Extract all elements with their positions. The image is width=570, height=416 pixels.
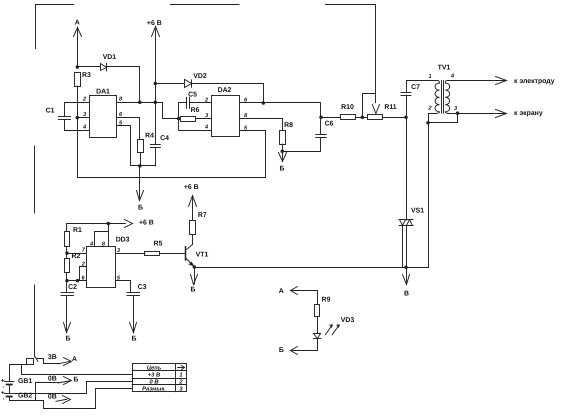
svg-text:R10: R10 — [341, 104, 354, 111]
wire A-node to VD1 — [77, 66, 100, 68]
junction dot TV1 bottom node — [426, 121, 430, 125]
+6V net arrow above R7 — [189, 196, 197, 221]
transistor VT1 base bar — [185, 247, 187, 260]
wire R11 to C7 line — [382, 117, 406, 119]
net A arrow to R9 — [291, 287, 318, 305]
diode VD2 — [185, 80, 192, 88]
wire DD3 pin6 — [67, 280, 87, 282]
ground rail wire of oscillator — [78, 131, 266, 178]
resistor R8 — [280, 131, 286, 145]
border bracket top-left — [36, 5, 74, 49]
wire riser to 0V-B arrow — [36, 383, 59, 401]
triac VS1 — [399, 220, 413, 268]
ground arrow below VT1 (net B) — [191, 267, 198, 285]
op-amp DA1 — [90, 96, 117, 138]
wire DD3 pin2 jog — [80, 267, 87, 281]
transformer TV1 core — [442, 81, 444, 114]
svg-text:4: 4 — [450, 74, 455, 80]
svg-text:R5: R5 — [154, 241, 163, 248]
svg-text:2: 2 — [82, 97, 87, 103]
net A arrow 3V — [58, 358, 72, 366]
wire +3V to table row1 — [22, 365, 133, 375]
junction dot +6V to VD2 — [154, 82, 158, 86]
svg-text:Цепь: Цепь — [147, 366, 162, 372]
junction dot C6 top node — [319, 116, 323, 120]
ground arrow below R4 (net B) — [137, 166, 144, 201]
svg-text:R8: R8 — [284, 122, 293, 129]
svg-text:GB2: GB2 — [18, 392, 32, 399]
resistor R7 — [190, 221, 196, 235]
svg-text:R3: R3 — [82, 72, 91, 79]
junction dot R10/R11 — [361, 116, 365, 120]
resistor R1 — [65, 232, 70, 247]
node A net label top — [74, 27, 82, 67]
wire C7 top to transformer pin1 — [407, 81, 437, 93]
emitter arrowhead — [189, 262, 195, 267]
wire bottom rail to table row3 — [44, 389, 133, 409]
wire +6V corner down to R1 — [66, 224, 68, 232]
wire DD3 pin8 stub — [108, 224, 110, 247]
wire +6V to VD2 — [155, 83, 184, 85]
svg-text:Б: Б — [191, 287, 196, 294]
resistor R10 — [341, 115, 356, 120]
svg-text:DA1: DA1 — [96, 89, 110, 96]
resistor R3 — [75, 73, 81, 87]
svg-text:R2: R2 — [72, 253, 81, 260]
wire GB2 bottom rail — [10, 397, 44, 401]
svg-text:1: 1 — [179, 373, 182, 379]
wire VD1 to drop — [107, 67, 140, 103]
svg-text:А: А — [279, 288, 284, 295]
svg-text:Б: Б — [66, 335, 71, 342]
wire DD3 pin3 to R5 — [116, 253, 145, 255]
wire R4 bottom — [140, 153, 142, 166]
wire R6 to DA2 pin3 — [196, 118, 212, 120]
junction dot R1/R2 pin7 — [65, 251, 69, 255]
svg-text:TV1: TV1 — [438, 64, 451, 71]
junction dot DD3 supply — [107, 222, 111, 226]
svg-text:+: + — [1, 391, 5, 397]
junction dot C5/R6 node — [177, 117, 181, 121]
svg-text:C6: C6 — [325, 120, 334, 127]
wire DD3 pin5 to C3 — [116, 281, 131, 293]
potentiometer R11 — [368, 115, 383, 120]
svg-text:3В: 3В — [48, 354, 57, 361]
svg-text:7: 7 — [82, 248, 86, 254]
wire DA2 pin8 to R8 — [240, 119, 283, 131]
border segment left lower into switch — [34, 285, 36, 357]
svg-text:GB1: GB1 — [18, 378, 32, 385]
wire DA2 pin5 — [240, 130, 265, 132]
connector table X1 — [132, 364, 186, 392]
net B arrow 0V — [58, 377, 72, 385]
svg-text:А: А — [72, 356, 77, 363]
svg-text:Б: Б — [132, 335, 137, 342]
svg-text:0В: 0В — [48, 394, 57, 401]
border segment top-middle — [171, 4, 240, 6]
switch SA1 lever — [27, 357, 39, 365]
resistor R6 — [181, 117, 196, 122]
junction dot DA1 pin3 — [76, 116, 80, 120]
wire DD3 pin7 — [67, 253, 87, 255]
transformer TV1 secondary winding — [445, 80, 449, 113]
wire R1 to R2 — [66, 247, 68, 259]
wire DA1 pin3 — [77, 117, 89, 119]
svg-text:R7: R7 — [198, 212, 207, 219]
svg-text:C2: C2 — [68, 284, 77, 291]
svg-text:VT1: VT1 — [196, 251, 209, 258]
svg-text:C5: C5 — [188, 92, 197, 99]
junction dot R8 bottom — [281, 150, 285, 154]
svg-text:+6 В: +6 В — [147, 20, 162, 27]
svg-text:В: В — [404, 290, 409, 297]
svg-text:4: 4 — [82, 125, 87, 131]
junction dot VS1 output node — [404, 266, 408, 270]
+6V net arrow top — [152, 27, 160, 145]
wire R9 to VD3 — [317, 317, 319, 334]
wire DA1 pin8 to C5/R6 node — [117, 103, 179, 119]
wire R3 bottom to pin3 node and down to rail — [77, 86, 79, 178]
wire pin3 node down to pin2 node — [429, 114, 458, 123]
wiper arrowhead onto R11 — [372, 105, 379, 114]
net B arrow left — [291, 347, 298, 355]
wire C4 bottom — [155, 147, 157, 166]
svg-text:Б: Б — [279, 347, 284, 354]
svg-text:DD3: DD3 — [116, 236, 130, 243]
wire VD2 to DA2 pin6 wire — [192, 84, 264, 103]
svg-text:R1: R1 — [73, 227, 82, 234]
svg-text:8: 8 — [119, 97, 123, 103]
LED VD3 — [313, 324, 340, 338]
junction dot VD1 on pin8 wire — [138, 100, 142, 104]
wire GB1 to GB2 — [9, 384, 11, 393]
wire DD3 pin4 stub — [95, 232, 109, 247]
svg-text:1: 1 — [428, 74, 431, 80]
wire DA1 pin5 down and along bottom — [117, 126, 156, 166]
svg-text:C7: C7 — [411, 84, 420, 91]
capacitor C6 — [283, 117, 327, 151]
wire DA1 pin2 to C1 top — [65, 103, 90, 117]
wire R5 to VT1 base — [159, 253, 185, 255]
svg-text:VD3: VD3 — [341, 317, 355, 324]
junction dot VT1 emitter node — [193, 265, 197, 269]
junction dot pin3 node — [456, 111, 460, 115]
battery GB1 — [5, 382, 15, 385]
+6V net arrow right — [125, 220, 133, 228]
border segment left upper — [34, 146, 36, 213]
svg-text:VD2: VD2 — [193, 73, 207, 80]
svg-text:+6 В: +6 В — [139, 220, 154, 227]
C5/R6 left vertical — [178, 103, 180, 130]
svg-text:C4: C4 — [160, 135, 169, 142]
resistor R5 — [145, 252, 160, 256]
wire R7 to VT1 collector — [187, 235, 193, 250]
svg-text:VD1: VD1 — [103, 54, 117, 61]
svg-text:VS1: VS1 — [411, 207, 424, 214]
svg-text:к экрану: к экрану — [514, 110, 543, 117]
ground arrow below C2 (net B) — [64, 296, 71, 333]
svg-text:C1: C1 — [46, 107, 55, 114]
transformer TV1 primary winding — [435, 80, 439, 113]
svg-text:+: + — [1, 378, 5, 384]
arrowhead to electrode — [496, 77, 507, 85]
wire DA2 pin6 to C6 node — [240, 103, 321, 118]
wire DA1 pin6 to R4 — [117, 118, 140, 140]
capacitor C3 — [127, 293, 140, 296]
long wire VT1 emitter to VS1 node — [194, 267, 406, 269]
wire DA2 pin4 — [179, 130, 212, 132]
svg-text:3: 3 — [454, 106, 458, 112]
svg-text:C3: C3 — [138, 284, 147, 291]
svg-text:+6 В: +6 В — [184, 184, 199, 191]
svg-text:R6: R6 — [191, 107, 200, 114]
wire battery top to switch — [10, 365, 27, 382]
svg-text:А: А — [75, 20, 80, 27]
svg-text:R11: R11 — [384, 104, 396, 111]
arrowhead to screen — [496, 110, 507, 118]
svg-text:Б: Б — [138, 204, 143, 211]
svg-text:Б: Б — [73, 376, 78, 383]
svg-text:Б: Б — [280, 165, 285, 172]
op-amp DA2 — [212, 96, 240, 137]
svg-text:4: 4 — [204, 125, 209, 131]
junction dot VD2 on pin6 wire — [262, 101, 266, 105]
ground arrow below C3 (net B) — [130, 296, 137, 333]
wire switch to 3V arrow — [37, 359, 59, 364]
svg-text:0 В: 0 В — [149, 379, 158, 386]
svg-text:Размык.: Размык. — [142, 387, 166, 393]
ground arrow below R8 (net B) — [279, 151, 287, 161]
diode VD1 — [101, 63, 107, 71]
wiper tie jog wire — [363, 94, 376, 118]
junction dot pin2 tie — [76, 279, 80, 283]
capacitor C1 — [59, 117, 71, 120]
wire TV1 pin2 bottom bend — [429, 114, 437, 123]
wire C6 node to R10 — [321, 117, 341, 119]
ground arrow net V below VS1 — [403, 267, 410, 284]
capacitor C7 — [401, 93, 411, 96]
capacitor C2 — [61, 293, 74, 296]
junction dot A/R3/VD1 — [76, 65, 80, 69]
svg-text:-: - — [3, 397, 5, 403]
transistor VT1 emitter — [186, 258, 195, 267]
junction dot R2/C2 pin6 — [65, 279, 69, 283]
wire TV1 pin3 to screen arrow — [448, 113, 506, 115]
svg-text:0В: 0В — [48, 376, 57, 383]
wire C7 down through R11 node to VS1 — [406, 95, 408, 219]
wire R8 bottom — [282, 144, 284, 151]
capacitor C5 — [179, 97, 212, 108]
border segment top-right with feedback drop to R11 wiper — [326, 5, 376, 103]
capacitor C4 — [150, 145, 160, 148]
junction dot R4 bottom node — [138, 164, 142, 168]
svg-text:2: 2 — [427, 106, 432, 112]
svg-text:DA2: DA2 — [218, 87, 232, 94]
wire TV1 pin4 to electrode arrow — [448, 80, 506, 82]
battery GB2 — [5, 394, 15, 397]
junction dot R11/C7 line — [404, 116, 408, 120]
junction dot +6V line on pin8 wire — [154, 100, 158, 104]
svg-text:R9: R9 — [322, 296, 331, 303]
wire R10 to R11 — [355, 117, 367, 119]
wire VD3 to net B arrow — [291, 339, 318, 351]
wire mid node to table row2 — [15, 382, 133, 394]
timer DD3 — [87, 247, 116, 288]
svg-text:+3 В: +3 В — [148, 372, 160, 379]
resistor R2 — [65, 259, 70, 273]
wire C1 bottom to DA1 pin4 — [65, 120, 90, 131]
+6V feed wire of DD3 — [67, 223, 125, 225]
wire R2 to C2 — [66, 273, 68, 293]
resistor R4 — [138, 140, 144, 153]
svg-text:R4: R4 — [145, 132, 154, 139]
net 0V arrow second — [56, 396, 71, 404]
wire TV1 bottom node down to VS1 output node — [407, 123, 429, 268]
svg-text:к электроду: к электроду — [514, 78, 555, 85]
resistor R9 — [315, 305, 320, 317]
